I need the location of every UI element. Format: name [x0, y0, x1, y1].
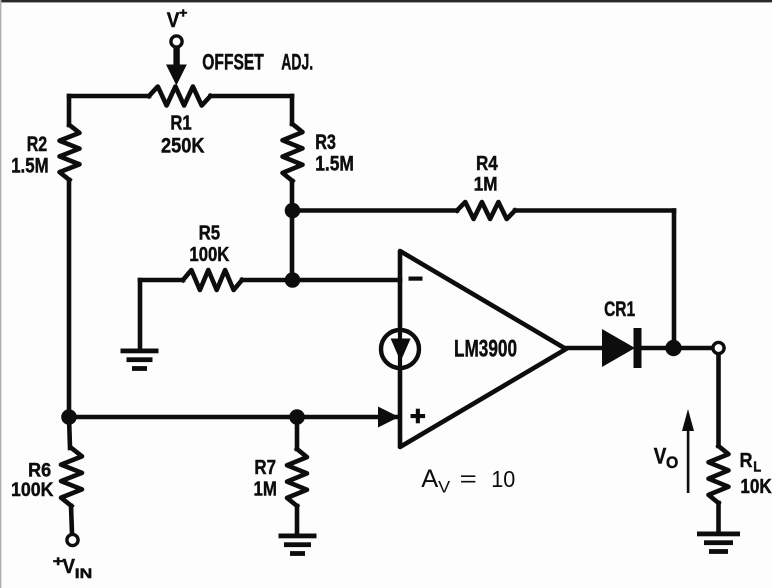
svg-text:100K: 100K	[189, 244, 229, 266]
wire R6 bottom lead to +Vin terminal	[71, 506, 72, 533]
svg-text:L: L	[753, 460, 761, 476]
wiper arrow of R1	[173, 48, 179, 66]
svg-text:OFFSET: OFFSET	[202, 50, 264, 75]
svg-text:100K: 100K	[11, 479, 54, 501]
wire non-inverting input row	[69, 415, 396, 420]
minus sign at inverting input	[409, 277, 423, 281]
svg-text:ADJ.: ADJ.	[281, 50, 313, 75]
svg-text:V: V	[438, 478, 451, 497]
svg-text:IN: IN	[75, 565, 93, 581]
left scan border	[0, 0, 1, 588]
resistor R2 1.5M zigzag	[60, 125, 80, 180]
svg-text:V: V	[63, 555, 76, 578]
svg-text:LM3900: LM3900	[454, 336, 517, 363]
resistor R4 1M zigzag	[457, 202, 515, 219]
svg-text:O: O	[666, 454, 678, 472]
svg-text:1.5M: 1.5M	[11, 155, 48, 178]
wire left rail upper	[67, 96, 72, 125]
svg-text:CR1: CR1	[604, 298, 635, 321]
svg-text:+: +	[179, 5, 188, 21]
junction dot output node	[665, 340, 681, 356]
resistor RL 10K zigzag	[709, 446, 729, 503]
diode CR1 triangle	[602, 329, 635, 367]
wire R3 bottom lead to node A	[290, 181, 295, 211]
wire R5 left lead	[140, 278, 183, 283]
svg-text:R5: R5	[199, 222, 221, 245]
svg-text:A: A	[421, 465, 438, 493]
wire top rail left segment	[69, 94, 149, 99]
label Vo	[654, 444, 679, 472]
wire R7 top lead	[295, 417, 300, 449]
resistor R5 100K zigzag	[183, 270, 242, 290]
wire node A down to inverting input row	[290, 211, 295, 281]
label +Vin	[53, 553, 93, 581]
svg-text:1.5M: 1.5M	[315, 153, 354, 176]
svg-text:R7: R7	[254, 456, 276, 479]
diode CR1 cathode bar	[634, 328, 642, 368]
svg-text:R4: R4	[476, 153, 499, 175]
svg-text:R2: R2	[27, 133, 48, 156]
top scan border	[0, 0, 772, 2]
svg-text:=: =	[460, 467, 477, 492]
wire feedback row right segment	[515, 208, 674, 213]
V+ terminal circle	[171, 36, 182, 47]
resistor R7 1M zigzag	[287, 449, 307, 506]
svg-text:R: R	[740, 450, 753, 472]
svg-text:10K: 10K	[740, 475, 772, 498]
wire feedback row left segment	[292, 208, 457, 213]
current source in op-amp input	[381, 330, 419, 368]
svg-text:V: V	[654, 444, 667, 469]
svg-text:1M: 1M	[254, 478, 277, 501]
wire R7 bottom lead to ground	[295, 506, 300, 533]
wire output node down to RL	[716, 355, 721, 446]
ground below RL	[697, 532, 740, 537]
wire R3 top lead	[290, 96, 295, 124]
svg-text:10: 10	[491, 466, 515, 492]
wire left rail lower	[67, 180, 72, 417]
junction dot left rail / bottom row node	[61, 409, 77, 425]
wire diode cathode to output node	[640, 346, 712, 351]
resistor R3 1.5M zigzag	[283, 124, 303, 181]
wire R6 top lead	[69, 417, 70, 448]
wire RL bottom lead to ground	[716, 503, 721, 533]
resistor R1 250K potentiometer zigzag	[149, 87, 211, 106]
svg-text:1M: 1M	[474, 174, 498, 195]
wire R5 to inverting input	[242, 278, 400, 283]
Vout terminal circle	[713, 342, 724, 353]
svg-text:V: V	[167, 9, 180, 32]
arrowhead into plus input	[378, 407, 399, 428]
ground below R7	[279, 534, 317, 539]
svg-text:250K: 250K	[161, 135, 205, 158]
resistor R6 100K zigzag	[61, 448, 82, 506]
junction dot node A (R3/R4/feedback)	[285, 203, 301, 219]
junction dot R7 / plus input node	[289, 409, 305, 425]
wire top rail right segment	[211, 94, 293, 99]
ground below R5	[121, 349, 159, 354]
+Vin terminal circle	[67, 534, 78, 545]
svg-text:R3: R3	[315, 131, 336, 154]
label OFFSET ADJ.	[202, 50, 313, 75]
Vo arrow (up)	[687, 425, 690, 493]
plus sign at non-inverting input	[411, 409, 426, 424]
wire op-amp output to diode anode	[566, 346, 603, 351]
label V+	[167, 5, 188, 33]
wire right rail down to output node	[672, 211, 677, 349]
svg-text:R1: R1	[170, 112, 191, 135]
op-amp U1 LM3900 triangle	[400, 251, 566, 447]
label Av = 10	[421, 465, 515, 497]
wire R5 left leg to ground	[138, 280, 143, 350]
label RL	[740, 450, 762, 476]
junction dot R5 / minus input node	[285, 272, 301, 288]
